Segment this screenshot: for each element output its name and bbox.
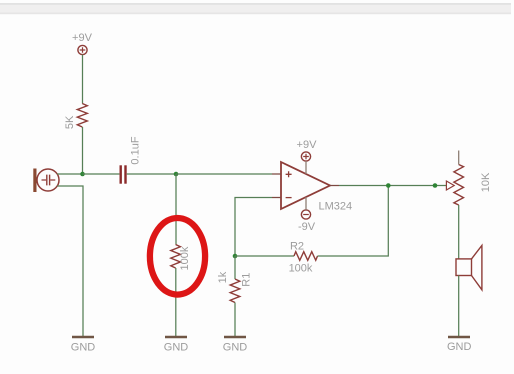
svg-text:5K: 5K	[64, 115, 76, 129]
node A junction	[80, 172, 85, 177]
op-amp U1 LM324	[272, 162, 352, 213]
resistor R1 1k	[217, 271, 253, 302]
speaker SP1	[456, 245, 482, 289]
svg-text:R1: R1	[241, 273, 253, 287]
resistor R2 100k	[289, 240, 318, 274]
wire 100k to GND	[175, 268, 177, 337]
window top bar	[0, 3, 511, 14]
supply +9V (op-amp)	[297, 139, 318, 161]
resistor 5K	[64, 104, 87, 130]
wire node A to capacitor	[83, 173, 120, 175]
supply +9V (left)	[72, 32, 93, 55]
wire +9V to op-amp V+ pin	[305, 161, 307, 174]
wire mic + terminal to node A	[57, 173, 82, 175]
wire R1 to GND	[234, 303, 236, 338]
svg-text:GND: GND	[223, 342, 248, 354]
svg-text:-9V: -9V	[298, 221, 316, 233]
resistor 100k (bias to ground)	[171, 245, 191, 271]
node E junction (pot wiper)	[433, 183, 438, 188]
ground (speaker)	[447, 337, 472, 353]
ground (R1)	[223, 337, 248, 354]
microphone MIC1	[33, 169, 59, 193]
svg-text:GND: GND	[71, 342, 96, 354]
svg-text:1k: 1k	[217, 271, 229, 283]
wire capacitor to node B	[127, 173, 176, 175]
svg-text:LM324: LM324	[319, 201, 353, 213]
wire op-amp - input to node C	[235, 198, 272, 257]
wire 5K to node A	[82, 127, 84, 174]
svg-text:GND: GND	[164, 342, 189, 354]
svg-text:R2: R2	[290, 240, 304, 252]
svg-text:+9V: +9V	[297, 139, 318, 151]
svg-text:GND: GND	[447, 341, 472, 353]
ground (mic)	[71, 337, 96, 354]
svg-text:0.1uF: 0.1uF	[130, 136, 142, 164]
wire pot top stub	[458, 151, 460, 165]
potentiometer 10K	[446, 165, 492, 205]
svg-text:100k: 100k	[179, 246, 191, 270]
ground (100k resistor)	[164, 337, 189, 354]
wire node B down to 100k resistor	[175, 174, 177, 245]
wire speaker to GND	[458, 276, 460, 338]
wire node B to op-amp + input	[176, 173, 272, 175]
wire R2 to output node D	[318, 186, 389, 257]
node D junction (feedback tap)	[386, 183, 391, 188]
node C junction	[233, 254, 238, 259]
node B junction	[174, 172, 179, 177]
wire op-amp output	[339, 185, 447, 187]
svg-text:+9V: +9V	[72, 32, 93, 44]
wire node C to R2	[235, 255, 294, 257]
wire op-amp V- pin to -9V	[305, 197, 307, 210]
wire mic - terminal to GND	[57, 186, 83, 337]
wire pot bottom to speaker	[458, 205, 460, 259]
red annotation circle around 100k resistor	[150, 218, 205, 295]
wire +9V to 5K resistor	[82, 55, 84, 104]
wire node C to R1	[234, 256, 236, 279]
svg-text:100k: 100k	[289, 263, 313, 275]
svg-text:10K: 10K	[480, 172, 492, 192]
capacitor C1 0.1uF	[120, 136, 142, 184]
supply -9V (op-amp)	[298, 210, 316, 233]
